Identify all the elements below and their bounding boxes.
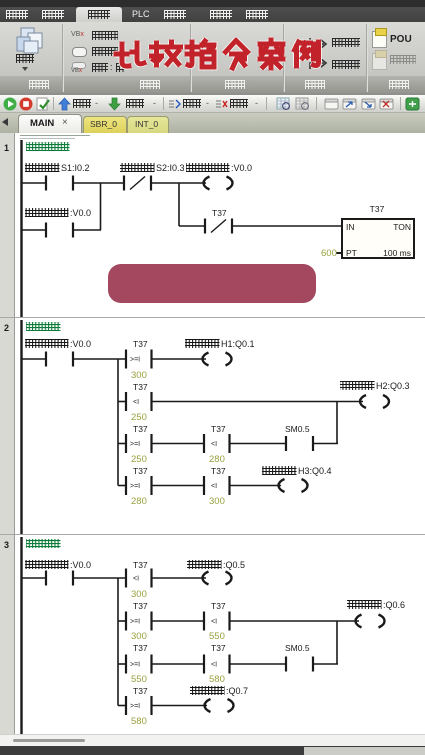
N3 branch column vertical bbox=[117, 578, 119, 706]
N1 wire branch to T37 contact bbox=[179, 225, 205, 227]
N1 parallel branch wire row2 bbox=[22, 229, 47, 231]
editor margin gutter bbox=[0, 133, 15, 734]
svg-text:3: 3 bbox=[4, 540, 9, 550]
N3 branch wire row2 bbox=[118, 620, 126, 622]
editor white area bbox=[0, 133, 425, 734]
svg-text:1: 1 bbox=[4, 143, 9, 153]
svg-text:250: 250 bbox=[131, 454, 147, 465]
text 下载 bbox=[126, 99, 144, 108]
svg-text:550: 550 bbox=[131, 674, 147, 685]
svg-text::Q0.7: :Q0.7 bbox=[226, 686, 248, 696]
group label 属性 bbox=[389, 80, 409, 89]
svg-text:H3:Q0.4: H3:Q0.4 bbox=[298, 466, 332, 476]
icon 上一个 prev bookmark bbox=[308, 59, 330, 70]
window tool icon 2 bbox=[342, 97, 357, 111]
run button (green play) bbox=[3, 97, 17, 111]
svg-text:T37: T37 bbox=[133, 601, 148, 611]
svg-text::Q0.6: :Q0.6 bbox=[383, 600, 405, 610]
N2 coil 东西黄灯H3:Q0.4 bbox=[262, 466, 332, 492]
svg-text:<I: <I bbox=[211, 483, 217, 490]
ribbon group separator bbox=[283, 24, 284, 92]
svg-text:T37: T37 bbox=[133, 643, 148, 653]
svg-text:<I: <I bbox=[133, 399, 139, 406]
N3 contact SM0.5 (NO) bbox=[285, 643, 313, 672]
N3 join vertical row3->row2 bbox=[336, 621, 338, 664]
scrollbar thumb bbox=[13, 739, 85, 742]
N2 contact SM0.5 (NO) bbox=[285, 424, 313, 451]
icon 下一个 next bookmark bbox=[308, 37, 330, 48]
red title char 比 bbox=[116, 43, 144, 66]
N3 wire row3 seg3 bbox=[230, 663, 286, 665]
button 组件 dropdown caret bbox=[22, 67, 28, 71]
svg-text:300: 300 bbox=[131, 370, 147, 381]
ribbon group separator bbox=[62, 24, 63, 92]
svg-text:100 ms: 100 ms bbox=[383, 248, 411, 258]
N2 cmp contact T37 <I 300 (row4) bbox=[204, 466, 230, 507]
menu item Edit 编辑 bbox=[42, 10, 64, 19]
N3 branch wire row4 bbox=[118, 705, 126, 707]
N3 cmp contact T37 <I 580 (row3) bbox=[204, 643, 230, 685]
N3 cmp contact T37 <I 550 (row2) bbox=[204, 601, 230, 642]
N2 cmp contact T37 <I 250 (row2) bbox=[126, 382, 152, 423]
svg-text:H2:Q0.3: H2:Q0.3 bbox=[376, 381, 410, 391]
N2 wire row3 seg3 bbox=[230, 443, 286, 445]
svg-text:T37: T37 bbox=[133, 686, 148, 696]
tab MAIN (active) bbox=[18, 114, 82, 134]
N2 cmp contact T37 >=I 250 (row3) bbox=[126, 424, 152, 465]
toolbar separator bbox=[53, 97, 54, 110]
svg-text:T37: T37 bbox=[370, 204, 385, 214]
N2 branch column vertical bbox=[117, 359, 119, 486]
svg-text:T37: T37 bbox=[211, 424, 226, 434]
button 组件 text bbox=[16, 54, 34, 63]
red title char 指 bbox=[187, 41, 214, 67]
red title char 令 bbox=[226, 41, 248, 68]
network 3 title 南北方向 bbox=[26, 539, 61, 548]
button 组件 (component) icon cubes bbox=[13, 25, 49, 71]
svg-text::V0.0: :V0.0 bbox=[70, 339, 91, 349]
option icon 符号:绝对 bbox=[72, 62, 86, 69]
tab nav arrow left bbox=[2, 118, 8, 126]
svg-text:>=I: >=I bbox=[130, 662, 140, 669]
network 1 left rail bbox=[20, 140, 22, 317]
svg-text:IN: IN bbox=[346, 222, 355, 232]
N2 wire row3 to join bbox=[313, 443, 338, 445]
svg-text::V0.0: :V0.0 bbox=[70, 560, 91, 570]
group label 注释 bbox=[225, 80, 245, 89]
ribbon group separator bbox=[366, 24, 367, 92]
partial scrolled row under tabs bbox=[20, 135, 90, 136]
svg-text:580: 580 bbox=[131, 716, 147, 727]
text 删除 bbox=[230, 99, 248, 108]
text 下一个 bbox=[332, 38, 360, 47]
option text 仅符号 bbox=[92, 47, 118, 56]
timer box T37 TON bbox=[342, 204, 414, 258]
toolbar separator bbox=[400, 97, 401, 110]
toolbar separator bbox=[316, 97, 317, 110]
N2 branch wire row3 bbox=[118, 443, 126, 445]
N2 cmp contact T37 >=I 280 (row4) bbox=[126, 466, 152, 507]
N2 branch wire row2 bbox=[118, 401, 126, 403]
window tool icon 1 bbox=[324, 97, 339, 111]
window tool icon 3 bbox=[361, 97, 376, 111]
network 2 title 东西方向 bbox=[26, 322, 61, 331]
N3 cmp contact T37 >=I 300 (row2) bbox=[126, 601, 152, 642]
svg-text:T37: T37 bbox=[211, 466, 226, 476]
svg-text:280: 280 bbox=[209, 454, 225, 465]
toolbar separator bbox=[266, 97, 267, 110]
svg-text:T37: T37 bbox=[212, 208, 227, 218]
N3 cmp contact T37 <I 300 (row1) bbox=[126, 560, 152, 600]
insert caret bbox=[206, 98, 209, 108]
N2 wire contact to branch column bbox=[73, 358, 126, 360]
menu active tab View 视图 bbox=[76, 7, 122, 22]
svg-text:S1:I0.2: S1:I0.2 bbox=[61, 163, 90, 173]
upload caret bbox=[95, 98, 98, 108]
svg-text:TON: TON bbox=[393, 222, 411, 232]
tab SBR_0 bbox=[83, 116, 127, 134]
title bar strip bbox=[0, 0, 425, 7]
toolbar row background bbox=[0, 95, 425, 113]
menu item Tools 工具 bbox=[210, 10, 232, 19]
N1 branch vertical to T37 rung bbox=[178, 183, 180, 226]
N1 wire contact1-contact2 bbox=[73, 182, 124, 184]
option icon 仅符号 bbox=[72, 47, 87, 57]
menu item Debug 调试 bbox=[164, 10, 186, 19]
ribbon background bbox=[0, 22, 425, 94]
tab bar background bbox=[0, 113, 425, 133]
group label 符号 bbox=[140, 80, 160, 89]
insert icon bbox=[168, 98, 181, 110]
delete icon bbox=[215, 98, 228, 110]
N3 wire row2 seg2 bbox=[152, 620, 204, 622]
N3 wire row4 to coil bbox=[152, 705, 207, 707]
N2 branch wire row4 bbox=[118, 485, 126, 487]
toolbar separator bbox=[163, 97, 164, 110]
text 插入 bbox=[183, 99, 201, 108]
option icon VBx bbox=[71, 31, 84, 38]
separator network 2 bbox=[0, 317, 425, 319]
svg-text:300: 300 bbox=[131, 589, 147, 600]
group label 书签 bbox=[305, 80, 325, 89]
icon address grid 2 bbox=[295, 97, 310, 111]
PT input wire + constant 600 bbox=[321, 248, 342, 259]
red title char 案 bbox=[260, 40, 283, 68]
svg-text:T37: T37 bbox=[133, 466, 148, 476]
svg-text::V0.0: :V0.0 bbox=[70, 208, 91, 218]
svg-text:T37: T37 bbox=[133, 560, 148, 570]
N2 contact 启动标志位:V0.0 (NO) bbox=[25, 339, 91, 367]
svg-text:H1:Q0.1: H1:Q0.1 bbox=[221, 339, 255, 349]
svg-text:T37: T37 bbox=[211, 601, 226, 611]
N3 wire row2 to coil bbox=[230, 620, 359, 622]
svg-text:250: 250 bbox=[131, 412, 147, 423]
svg-text:>=I: >=I bbox=[130, 619, 140, 626]
N3 wire row3 seg2 bbox=[152, 663, 204, 665]
N3 coil 南北红灯:Q0.5 bbox=[187, 560, 245, 585]
N1 wire row2 to junction bbox=[73, 229, 101, 231]
text 数据页 (disabled) bbox=[390, 55, 416, 64]
N2 coil 东西红灯H1:Q0.1 bbox=[185, 339, 255, 366]
N2 wire row4 seg3 bbox=[230, 485, 281, 487]
N2 join vertical row3->row2 bbox=[336, 402, 338, 444]
network 3 left rail bbox=[20, 537, 22, 734]
svg-text:SM0.5: SM0.5 bbox=[285, 424, 310, 434]
svg-text:300: 300 bbox=[131, 631, 147, 642]
N1 contact T37 (NC) bbox=[205, 208, 232, 234]
N3 coil 南北黄灯:Q0.7 bbox=[190, 686, 248, 712]
stop button (red) bbox=[19, 97, 33, 111]
N3 wire row3 to join bbox=[313, 663, 338, 665]
download caret bbox=[153, 98, 156, 108]
svg-text:>=I: >=I bbox=[130, 483, 140, 490]
toolbar bottom line bbox=[0, 112, 425, 113]
N3 cmp contact T37 >=I 550 (row3) bbox=[126, 643, 152, 685]
icon 数据页 (disabled) bbox=[372, 53, 387, 70]
window tool icon 4 bbox=[379, 97, 394, 111]
svg-text:<I: <I bbox=[211, 441, 217, 448]
upload icon (blue up arrow) bbox=[58, 97, 71, 111]
N1 junction vertical x100 bbox=[100, 183, 102, 230]
N1 coil 启动标志位:V0.0 bbox=[186, 163, 252, 190]
menu item Help 帮助 bbox=[246, 10, 268, 19]
icon POU bbox=[372, 31, 387, 48]
N1 contact 启动按钮S1:I0.2 (NO) bbox=[25, 163, 90, 191]
svg-text:580: 580 bbox=[209, 674, 225, 685]
svg-text:2: 2 bbox=[4, 323, 9, 333]
green table icon bbox=[405, 97, 420, 111]
svg-text::Q0.5: :Q0.5 bbox=[223, 560, 245, 570]
N1 wire T37 contact to TON box bbox=[232, 225, 342, 227]
option text 符号:绝(对) bbox=[92, 63, 108, 72]
text 上传 bbox=[73, 99, 91, 108]
N3 wire contact to branch column bbox=[73, 577, 126, 579]
svg-text:600: 600 bbox=[321, 248, 337, 259]
network 2 left rail bbox=[20, 320, 22, 534]
svg-text:>=I: >=I bbox=[130, 441, 140, 448]
svg-text:PT: PT bbox=[346, 248, 357, 258]
icon address grid 1 bbox=[276, 97, 291, 111]
svg-text:300: 300 bbox=[209, 496, 225, 507]
separator network 3 bbox=[0, 534, 425, 536]
svg-text:<I: <I bbox=[211, 662, 217, 669]
N3 branch wire row3 bbox=[118, 663, 126, 665]
N2 cmp contact T37 >=I 300 (row1) bbox=[126, 339, 152, 381]
N2 coil 东西绿灯H2:Q0.3 bbox=[340, 381, 410, 408]
N3 cmp contact T37 >=I 580 (row4) bbox=[126, 686, 152, 727]
N3 contact 启动标志位:V0.0 (NO) bbox=[25, 560, 91, 586]
svg-text:280: 280 bbox=[131, 496, 147, 507]
menu item PLC bbox=[132, 9, 150, 19]
N1 contact 停止按钮S2:I0.3 (NC) bbox=[120, 163, 185, 191]
compile button (sheet w/ check) bbox=[36, 97, 50, 111]
N2 wire row3 seg2 bbox=[152, 443, 204, 445]
N1 wire contact2-coil bbox=[151, 182, 206, 184]
status bar right light section bbox=[304, 747, 425, 755]
N3 coil 南北绿灯:Q0.6 bbox=[347, 600, 405, 628]
horizontal scrollbar track bbox=[0, 734, 425, 747]
N2 wire rail-contact row1 bbox=[22, 358, 47, 360]
redaction blob bbox=[108, 264, 316, 303]
status bar dark bbox=[0, 746, 425, 755]
text POU bbox=[390, 34, 412, 45]
group label 窗口 bbox=[29, 80, 49, 89]
svg-text:T37: T37 bbox=[133, 424, 148, 434]
tab MAIN close x bbox=[62, 117, 68, 128]
N3 wire rail-contact row1 bbox=[22, 577, 47, 579]
svg-text:T37: T37 bbox=[211, 643, 226, 653]
network 1 title 程序段注释 bbox=[26, 142, 70, 151]
svg-text:S2:I0.3: S2:I0.3 bbox=[156, 163, 185, 173]
menu item File 文件 bbox=[6, 10, 28, 19]
delete caret bbox=[255, 98, 258, 108]
svg-text:550: 550 bbox=[209, 631, 225, 642]
N2 cmp contact T37 <I 280 (row3) bbox=[204, 424, 230, 465]
N3 wire cmp-coil row1 bbox=[152, 577, 206, 579]
N2 wire cmp-coil row1 bbox=[152, 358, 206, 360]
option text 仅绝对 bbox=[92, 31, 118, 40]
svg-text:SM0.5: SM0.5 bbox=[285, 643, 310, 653]
svg-text::V0.0: :V0.0 bbox=[231, 163, 252, 173]
svg-text:>=I: >=I bbox=[130, 703, 140, 710]
red title char 例 bbox=[295, 42, 319, 66]
red title char 较 bbox=[152, 42, 181, 65]
menu bar bbox=[0, 7, 425, 22]
svg-text:>=I: >=I bbox=[130, 357, 140, 364]
svg-text:T37: T37 bbox=[133, 339, 148, 349]
ribbon group separator bbox=[190, 24, 191, 92]
red overlay title 比较指令案例 bbox=[108, 33, 330, 77]
N2 wire row4 seg2 bbox=[152, 485, 204, 487]
svg-text:<I: <I bbox=[133, 576, 139, 583]
download icon (green down arrow) bbox=[108, 97, 121, 111]
N1 wire row1 rail to contact bbox=[22, 182, 47, 184]
svg-text:T37: T37 bbox=[133, 382, 148, 392]
N2 wire cmp-coil row2 bbox=[152, 401, 363, 403]
N1 contact 启动标志位:V0.0 (NO, seal-in) bbox=[25, 208, 91, 238]
text 上一个 bbox=[332, 60, 360, 69]
tab INT_0 bbox=[127, 116, 169, 134]
ribbon group label band bbox=[0, 76, 425, 93]
svg-text:<I: <I bbox=[211, 619, 217, 626]
